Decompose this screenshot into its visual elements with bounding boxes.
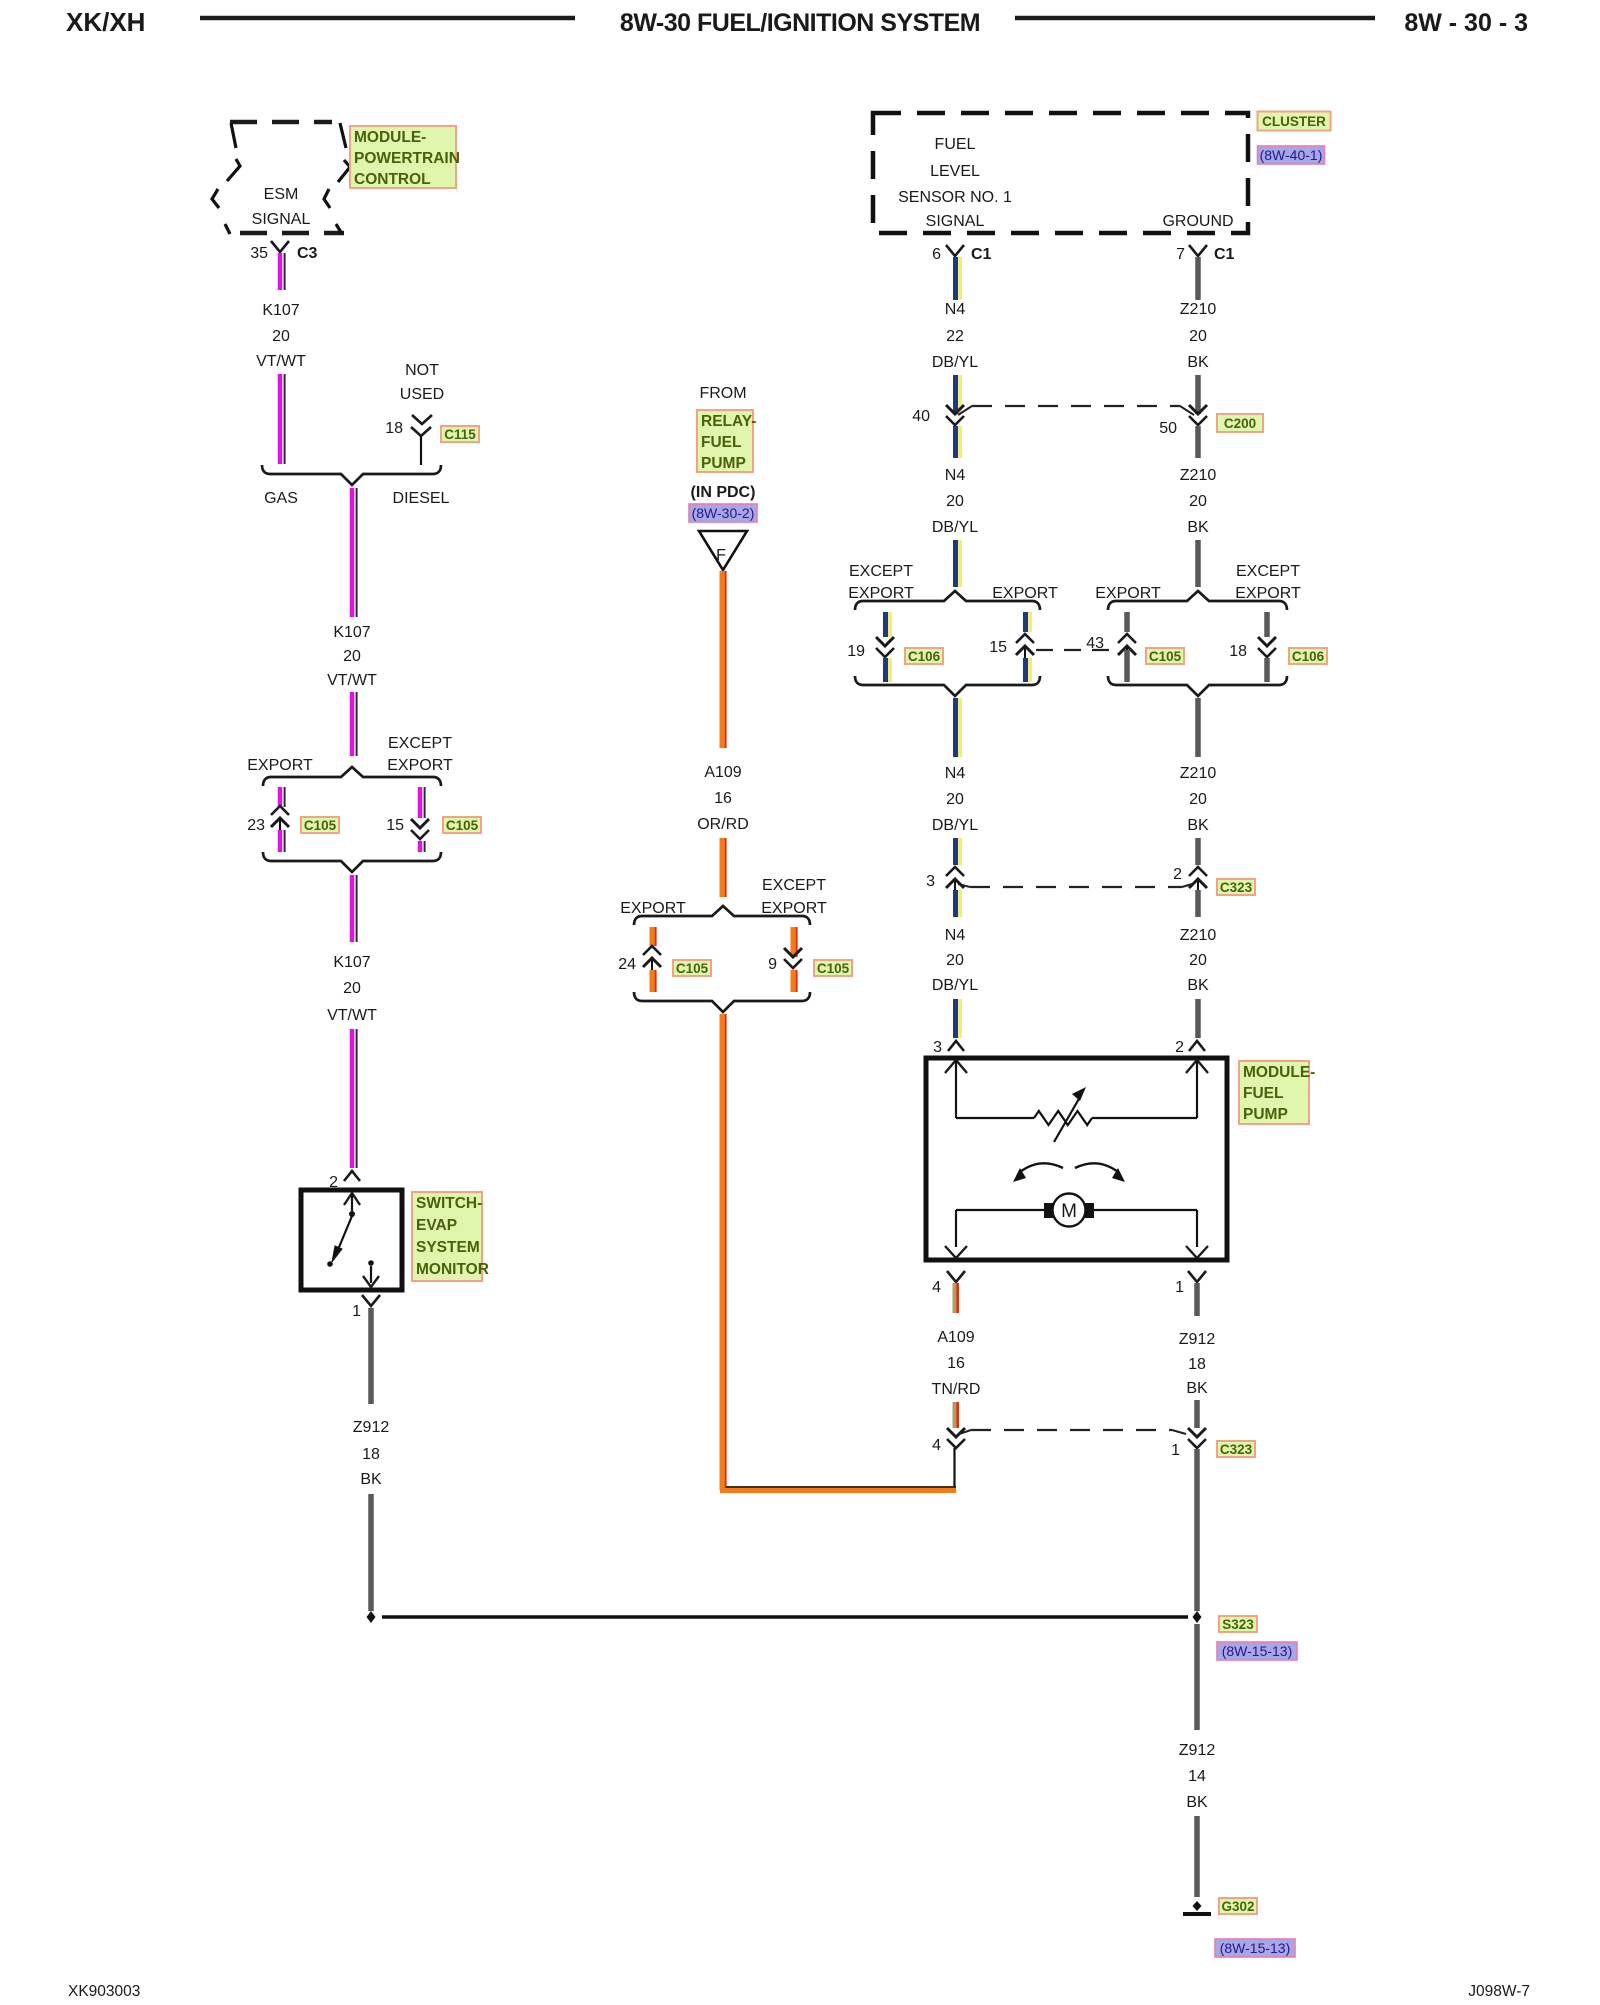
svg-text:EXPORT: EXPORT [620, 900, 686, 917]
wire stub below C115 [420, 436, 422, 465]
svg-text:C1: C1 [1214, 246, 1235, 263]
svg-text:PUMP: PUMP [1243, 1106, 1288, 1123]
wire K107 branch except-export segment [418, 787, 423, 818]
svg-text:EXCEPT: EXCEPT [849, 563, 913, 580]
svg-text:RELAY-: RELAY- [701, 413, 756, 430]
wire Z912 14 BK segment 1 [1194, 1624, 1200, 1730]
svg-text:2: 2 [1175, 1039, 1184, 1056]
svg-text:S323: S323 [1222, 1617, 1254, 1632]
label C105 (43) [1146, 648, 1184, 664]
svg-text:C105: C105 [817, 961, 850, 976]
wire splice horizontal run to S323 [382, 1615, 1188, 1619]
svg-text:MONITOR: MONITOR [416, 1261, 489, 1278]
svg-text:MODULE-: MODULE- [1243, 1064, 1315, 1081]
merge brace N4 branches [855, 676, 1040, 696]
motor M fuel pump [956, 1209, 1044, 1211]
merge brace K107 branches [263, 852, 441, 872]
svg-text:XK/XH: XK/XH [66, 7, 145, 37]
svg-text:BK: BK [1186, 1794, 1208, 1811]
svg-text:DB/YL: DB/YL [932, 977, 978, 994]
svg-text:EXPORT: EXPORT [992, 585, 1058, 602]
connector C200 pin 40 [946, 405, 964, 414]
svg-text:18: 18 [1229, 643, 1247, 660]
label C105 (23) [301, 817, 339, 833]
header rule right [1015, 16, 1375, 21]
svg-text:20: 20 [343, 980, 361, 997]
label C323 (lower) [1217, 1441, 1255, 1457]
switch pin 2 arrow into box [344, 1193, 360, 1205]
label (8W-30-2) [689, 504, 757, 522]
svg-text:3: 3 [926, 873, 935, 890]
svg-text:Z210: Z210 [1180, 301, 1217, 318]
label C106 (18) [1289, 648, 1327, 664]
wire K107 branch export segment [278, 787, 283, 807]
svg-text:Z210: Z210 [1180, 765, 1217, 782]
wire Z912 18 BK segment 1 (pump) [1194, 1283, 1200, 1316]
svg-text:BK: BK [360, 1471, 382, 1488]
wire Z210 branch export [1124, 612, 1130, 632]
svg-text:DB/YL: DB/YL [932, 817, 978, 834]
svg-text:1: 1 [1175, 1279, 1184, 1296]
wire Z912 18 BK segment (switch) [368, 1308, 374, 1404]
split brace K107 export/except-export [263, 767, 441, 786]
connector C105 pin 23 [271, 806, 289, 815]
label C105 (9) [814, 960, 852, 976]
connector C323 pin 1 [1188, 1428, 1206, 1437]
connector pin 3 above fuel pump module [948, 1041, 964, 1051]
svg-text:20: 20 [946, 952, 964, 969]
svg-text:20: 20 [946, 791, 964, 808]
svg-text:FROM: FROM [699, 385, 746, 402]
label C106 (19) [905, 648, 943, 664]
connector C323 pin 4 [947, 1428, 965, 1437]
svg-text:FUEL: FUEL [1243, 1085, 1283, 1102]
svg-text:C105: C105 [304, 818, 337, 833]
svg-text:14: 14 [1188, 1768, 1206, 1785]
switch contact dot (open) [327, 1261, 333, 1267]
connector C200 pin 50 [1189, 405, 1207, 414]
wire N4 segment 6 [953, 838, 958, 865]
wire N4 branch export [1023, 612, 1028, 632]
label S323 [1219, 1616, 1257, 1632]
connector pin 1 below fuel pump module [1188, 1271, 1206, 1282]
svg-text:K107: K107 [262, 302, 299, 319]
motor rotation arrows [1020, 1163, 1063, 1172]
svg-text:(8W-15-13): (8W-15-13) [1222, 1643, 1293, 1659]
wire Z210 segment 7 [1195, 890, 1201, 917]
svg-text:SENSOR NO. 1: SENSOR NO. 1 [898, 189, 1012, 206]
svg-text:50: 50 [1159, 420, 1177, 437]
cluster fuel level sensor dashed box [873, 113, 1248, 233]
svg-text:15: 15 [386, 817, 404, 834]
svg-text:C105: C105 [676, 961, 709, 976]
dashed connector line C105 15-43 [1036, 649, 1116, 651]
connector pin 1 below EVAP switch [362, 1295, 380, 1306]
svg-text:NOT: NOT [405, 362, 439, 379]
pump pin 4 arrow inside [955, 1210, 957, 1247]
merge brace A109 branches [634, 992, 810, 1012]
svg-text:18: 18 [1188, 1356, 1206, 1373]
wire N4 segment 4 [953, 540, 958, 587]
svg-text:(8W-15-13): (8W-15-13) [1220, 1940, 1291, 1956]
svg-text:C105: C105 [446, 818, 479, 833]
connector C106 pin 19 [876, 637, 894, 646]
dashed connector line C323 upper [958, 884, 970, 887]
connector C105 pin 15 (left split) [411, 819, 429, 828]
connector pin 4 below fuel pump module [947, 1271, 965, 1282]
merge brace Z210 branches [1108, 676, 1287, 696]
pump pin 1 arrow inside [1196, 1210, 1198, 1247]
label (8W-40-1) [1258, 146, 1325, 164]
svg-text:SIGNAL: SIGNAL [926, 213, 985, 230]
svg-text:EXCEPT: EXCEPT [388, 735, 452, 752]
wire K107 20 VT/WT segment 4 [350, 692, 355, 756]
wire A109 16 OR/RD segment 2 [720, 838, 725, 897]
switch output arrow to pin 1 [370, 1266, 372, 1283]
svg-text:Z912: Z912 [1179, 1742, 1216, 1759]
switch output contact dot [368, 1260, 374, 1266]
split brace N4 [855, 591, 1040, 610]
connector C105 pin 15 (export) [1016, 634, 1034, 643]
svg-text:EVAP: EVAP [416, 1217, 457, 1234]
connector C106 pin 18 [1258, 637, 1276, 646]
wire riser to connector C323 pin 4 [953, 1448, 955, 1487]
svg-text:C200: C200 [1224, 416, 1256, 431]
svg-text:MODULE-: MODULE- [354, 129, 426, 146]
svg-text:20: 20 [1189, 328, 1207, 345]
connector pin 2 of EVAP switch [344, 1171, 360, 1181]
svg-text:TN/RD: TN/RD [932, 1381, 981, 1398]
wire K107 20 VT/WT segment 1 [278, 253, 283, 290]
svg-text:EXPORT: EXPORT [1095, 585, 1161, 602]
wire K107 20 VT/WT segment 2 [278, 374, 283, 464]
svg-text:16: 16 [714, 790, 732, 807]
svg-text:C115: C115 [444, 427, 476, 442]
svg-text:BK: BK [1187, 817, 1209, 834]
label C200 [1217, 414, 1263, 432]
wire N4 branch export lower [1023, 658, 1028, 682]
svg-text:FUEL: FUEL [701, 434, 741, 451]
svg-text:VT/WT: VT/WT [327, 1007, 377, 1024]
svg-text:J098W-7: J098W-7 [1468, 1983, 1530, 2000]
svg-text:EXCEPT: EXCEPT [1236, 563, 1300, 580]
connector pin 2 above fuel pump module [1189, 1041, 1205, 1051]
svg-text:(8W-40-1): (8W-40-1) [1260, 147, 1323, 163]
wire A109 16 OR/RD long segment 3 [720, 1014, 725, 1490]
svg-text:CLUSTER: CLUSTER [1262, 114, 1326, 129]
svg-text:N4: N4 [945, 927, 966, 944]
svg-text:Z912: Z912 [1179, 1331, 1216, 1348]
svg-text:6: 6 [932, 246, 941, 263]
svg-text:4: 4 [932, 1437, 941, 1454]
svg-text:3: 3 [933, 1039, 942, 1056]
svg-text:Z210: Z210 [1180, 927, 1217, 944]
wire Z210 branch export lower (shaft) [1124, 650, 1130, 682]
svg-text:EXPORT: EXPORT [1235, 585, 1301, 602]
svg-text:2: 2 [1173, 866, 1182, 883]
svg-text:C106: C106 [908, 649, 941, 664]
svg-text:1: 1 [1171, 1442, 1180, 1459]
wire Z912 18 BK to splice [368, 1494, 374, 1611]
svg-text:20: 20 [946, 493, 964, 510]
svg-text:15: 15 [989, 639, 1007, 656]
split brace A109 export/except-export [634, 906, 810, 925]
svg-text:GROUND: GROUND [1162, 213, 1233, 230]
wire A109 branch export [650, 927, 655, 946]
wire Z210 20 BK segment 1 [1195, 257, 1201, 300]
label G302 [1219, 1898, 1257, 1914]
svg-text:C105: C105 [1149, 649, 1182, 664]
svg-text:USED: USED [400, 386, 444, 403]
svg-text:G302: G302 [1221, 1899, 1254, 1914]
wire A109 TN/RD segment 2 [953, 1402, 957, 1428]
svg-text:18: 18 [385, 420, 403, 437]
wire N4 segment 5 [953, 698, 958, 757]
label CLUSTER [1258, 112, 1331, 131]
svg-text:Z912: Z912 [353, 1419, 390, 1436]
svg-text:BK: BK [1187, 519, 1209, 536]
header rule left [200, 16, 575, 21]
svg-text:SIGNAL: SIGNAL [252, 211, 311, 228]
connector C323 pin 3 [946, 867, 964, 876]
svg-text:EXCEPT: EXCEPT [762, 877, 826, 894]
wire N4 20 DB/YL segment 3 [953, 426, 958, 458]
svg-text:20: 20 [272, 328, 290, 345]
svg-text:A109: A109 [704, 764, 741, 781]
connector C105 pin 24 [643, 946, 661, 955]
wire Z210 segment 8 [1195, 999, 1201, 1038]
connector C105 pin 43 [1118, 634, 1136, 643]
label SWITCH-EVAP SYSTEM MONITOR [412, 1192, 482, 1281]
svg-text:DIESEL: DIESEL [393, 490, 450, 507]
svg-text:4: 4 [932, 1279, 941, 1296]
module fuel pump box [926, 1058, 1227, 1260]
dashed connector line C200 [958, 406, 972, 415]
label (8W-15-13) lower [1215, 1939, 1295, 1957]
label (8W-15-13) upper [1217, 1642, 1297, 1660]
svg-text:ESM: ESM [264, 186, 299, 203]
svg-text:(8W-30-2): (8W-30-2) [692, 505, 755, 521]
svg-text:EXPORT: EXPORT [247, 757, 313, 774]
wire A109 branch export lower [650, 970, 655, 992]
label C323 (upper) [1217, 879, 1255, 895]
svg-text:8W - 30 - 3: 8W - 30 - 3 [1404, 9, 1528, 37]
wire Z210 branch except-export [1264, 612, 1270, 637]
wire Z210 segment 2 [1195, 375, 1201, 414]
wire K107 20 VT/WT segment 5 [350, 875, 355, 942]
svg-text:EXPORT: EXPORT [761, 900, 827, 917]
wire N4 segment 7 [953, 890, 958, 917]
svg-text:SYSTEM: SYSTEM [416, 1239, 480, 1256]
svg-text:20: 20 [1189, 952, 1207, 969]
svg-text:C323: C323 [1220, 1442, 1253, 1457]
svg-text:20: 20 [343, 648, 361, 665]
svg-text:9: 9 [768, 956, 777, 973]
split brace Z210 [1108, 591, 1287, 610]
pump pin 3 arrow inside [945, 1060, 967, 1073]
wire Z210 segment 3 [1195, 426, 1201, 458]
wire A109 branch except-export [791, 927, 796, 957]
svg-text:BK: BK [1187, 354, 1209, 371]
wire K107 branch except-export lower [418, 841, 423, 852]
wire Z912 14 BK segment 2 [1194, 1816, 1200, 1897]
wire A109 OR/RD horizontal run to fuel pump [720, 1488, 956, 1493]
label C115 [441, 426, 479, 442]
svg-text:GAS: GAS [264, 490, 298, 507]
connector C105 pin 9 [784, 948, 802, 957]
svg-text:C323: C323 [1220, 880, 1253, 895]
svg-text:EXPORT: EXPORT [848, 585, 914, 602]
svg-text:(IN PDC): (IN PDC) [691, 484, 756, 501]
wire A109 branch except-export lower [791, 970, 796, 992]
svg-text:20: 20 [1189, 791, 1207, 808]
svg-text:Z210: Z210 [1180, 467, 1217, 484]
svg-text:N4: N4 [945, 765, 966, 782]
wire K107 branch export lower [278, 830, 283, 852]
splice S323 junction dot [1193, 1611, 1202, 1623]
svg-text:BK: BK [1187, 977, 1209, 994]
pump pin 2 arrow inside [1186, 1060, 1208, 1073]
svg-text:SWITCH-: SWITCH- [416, 1195, 482, 1212]
svg-text:XK903003: XK903003 [68, 1983, 140, 2000]
wire N4 branch except-export [883, 612, 888, 637]
switch arm with arrowhead [337, 1216, 352, 1252]
splice junction dot left [367, 1611, 376, 1623]
connector C3 pin 35 [271, 241, 289, 252]
svg-text:N4: N4 [945, 301, 966, 318]
svg-text:K107: K107 [333, 954, 370, 971]
wire Z210 segment 4 [1195, 540, 1201, 587]
svg-text:F: F [716, 547, 726, 564]
wire K107 20 VT/WT segment 6 [350, 1029, 355, 1168]
svg-text:VT/WT: VT/WT [327, 672, 377, 689]
svg-text:20: 20 [1189, 493, 1207, 510]
variable resistor (fuel level sender) [956, 1117, 1034, 1119]
connector C1 pin 7 [1189, 245, 1207, 256]
svg-text:K107: K107 [333, 624, 370, 641]
variable resistor arrow [1054, 1097, 1080, 1142]
svg-text:22: 22 [946, 328, 964, 345]
svg-text:1: 1 [352, 1303, 361, 1320]
wire K107 20 VT/WT segment 3 [350, 488, 355, 617]
connector C1 pin 6 [946, 245, 964, 256]
svg-text:8W-30 FUEL/IGNITION SYSTEM: 8W-30 FUEL/IGNITION SYSTEM [620, 9, 980, 37]
label C105 (15) [443, 817, 481, 833]
wire Z912 18 BK segment 3 [1194, 1449, 1200, 1611]
svg-text:16: 16 [947, 1355, 965, 1372]
connector C323 pin 2 [1189, 867, 1207, 876]
wire Z210 segment 6 [1195, 838, 1201, 865]
svg-text:19: 19 [847, 643, 865, 660]
wire N4 branch except-export lower [883, 658, 888, 682]
svg-text:N4: N4 [945, 467, 966, 484]
svg-text:C1: C1 [971, 246, 992, 263]
label MODULE-FUEL PUMP [1239, 1061, 1309, 1124]
svg-text:M: M [1061, 1201, 1077, 1222]
label RELAY-FUEL PUMP [697, 410, 753, 472]
svg-text:BK: BK [1186, 1380, 1208, 1397]
svg-text:24: 24 [618, 956, 636, 973]
wire A109 16 TN/RD segment 1 [953, 1283, 957, 1313]
power feed symbol F triangle [699, 531, 747, 570]
svg-text:CONTROL: CONTROL [354, 171, 431, 188]
wire Z912 segment 2 (pump) [1194, 1400, 1200, 1428]
switch EVAP system monitor box [301, 1190, 402, 1290]
label MODULE-POWERTRAIN CONTROL [350, 126, 456, 188]
ground G302 symbol [1193, 1901, 1202, 1911]
wire A109 16 OR/RD segment 1 [720, 571, 725, 748]
svg-text:A109: A109 [937, 1329, 974, 1346]
label C105 (24) [673, 960, 711, 976]
wire N4 22 DB/YL segment 1 [953, 257, 958, 300]
svg-text:EXPORT: EXPORT [387, 757, 453, 774]
svg-text:LEVEL: LEVEL [930, 163, 980, 180]
svg-text:VT/WT: VT/WT [256, 353, 306, 370]
svg-text:FUEL: FUEL [935, 136, 976, 153]
svg-text:OR/RD: OR/RD [697, 816, 749, 833]
switch pivot dot [349, 1211, 355, 1217]
svg-text:40: 40 [912, 408, 930, 425]
module ESM SIGNAL (powertrain control module) dashed torn box [230, 120, 332, 125]
svg-text:PUMP: PUMP [701, 455, 746, 472]
wire Z210 branch except-export lower [1264, 658, 1270, 682]
svg-text:DB/YL: DB/YL [932, 354, 978, 371]
svg-text:43: 43 [1086, 635, 1104, 652]
svg-text:C3: C3 [297, 245, 318, 262]
svg-text:7: 7 [1176, 246, 1185, 263]
wire Z210 segment 5 [1195, 698, 1201, 757]
svg-text:C106: C106 [1292, 649, 1325, 664]
svg-text:POWERTRAIN: POWERTRAIN [354, 150, 460, 167]
svg-text:23: 23 [247, 817, 265, 834]
wire N4 segment 8 [953, 999, 958, 1038]
svg-text:35: 35 [250, 245, 268, 262]
svg-text:DB/YL: DB/YL [932, 519, 978, 536]
merge brace GAS / DIESEL [262, 465, 441, 485]
wire N4 segment 2 [953, 375, 958, 414]
dashed connector line C323 lower [959, 1430, 971, 1434]
svg-text:18: 18 [362, 1446, 380, 1463]
